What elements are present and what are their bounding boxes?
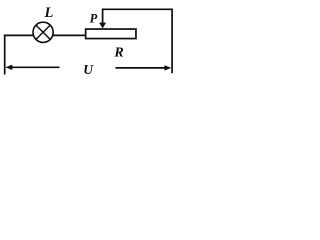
svg-text:L: L [44,5,54,21]
svg-text:R: R [113,46,123,61]
wire [102,8,172,10]
wire [4,35,6,75]
svg-text:U: U [83,62,94,77]
wire [4,34,34,36]
svg-text:P: P [90,11,98,25]
voltage dimension arrow U [5,65,171,71]
wire [171,9,173,74]
lamp L [33,22,53,42]
potentiometer wiper arrow P [99,9,106,28]
wire [53,34,85,36]
resistor R [86,29,136,39]
